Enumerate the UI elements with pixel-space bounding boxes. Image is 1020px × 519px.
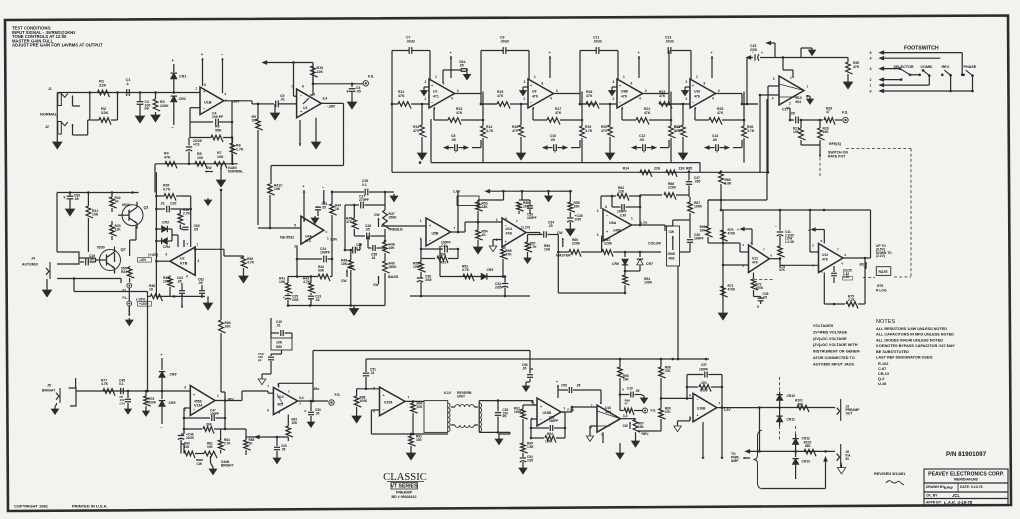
- wire pa return loop: [762, 458, 827, 489]
- wire U9 output: [554, 94, 597, 106]
- ground J5: [51, 403, 58, 414]
- ground C54: [519, 466, 527, 474]
- resistor R15: [480, 90, 528, 109]
- resistor R1: [98, 79, 110, 98]
- ground C56: [522, 382, 530, 391]
- capacitor C37: [686, 170, 701, 190]
- op-amp U1 bandpass: [425, 75, 460, 111]
- resistor R51 feedback: [421, 249, 458, 265]
- wire U15B out: [561, 406, 597, 412]
- ground mid rail: [545, 191, 553, 202]
- resistor R59 bias: [568, 190, 580, 217]
- resistor R35: [156, 184, 190, 201]
- diode CR12: [792, 434, 811, 457]
- resistor R96b: [620, 399, 642, 416]
- potentiometer R76 rate: [860, 262, 891, 275]
- capacitor C32: [495, 275, 508, 296]
- capacitor C59: [258, 350, 282, 374]
- op-amp U9 bandpass: [524, 75, 559, 111]
- potentiometer R48: [383, 241, 396, 261]
- resistor R85 bus: [666, 167, 692, 177]
- wire U2 out rail: [194, 246, 224, 251]
- wire out left drop: [759, 408, 761, 452]
- resistor R24: [674, 103, 688, 150]
- ground C59: [258, 374, 271, 385]
- capacitor C6: [347, 85, 361, 99]
- label 28v: [314, 387, 320, 391]
- resistor R77: [101, 379, 115, 396]
- capacitor C36: [687, 222, 704, 246]
- op-amp U1 second half: [291, 85, 336, 118]
- wire fs normal: [312, 66, 363, 85]
- ground C6: [347, 99, 356, 109]
- resistor R55: [501, 247, 513, 262]
- resistor R19: [580, 92, 593, 163]
- resistor R34: [115, 266, 135, 282]
- wire U5B out: [451, 191, 466, 233]
- dashed wiper link U11: [754, 279, 774, 281]
- wire connector stubs: [702, 408, 724, 459]
- label FOOTSWITCH: [904, 46, 939, 52]
- part number: [946, 451, 987, 458]
- capacitor C20: [156, 202, 190, 213]
- capacitor C44: [120, 391, 132, 407]
- jack J4 automix: [22, 257, 50, 280]
- jack J1 normal input: [48, 87, 80, 106]
- label up to down to: [876, 244, 892, 258]
- resistor R64: [623, 271, 653, 293]
- capacitor C61: [315, 202, 328, 216]
- resistor R70: [721, 228, 736, 241]
- ground J4: [42, 279, 51, 297]
- cw arrow gain normal: [205, 166, 213, 172]
- wire U1B output: [224, 101, 260, 105]
- supply arrow U9B: [638, 51, 641, 78]
- wire EQ bus upper: [431, 119, 700, 172]
- capacitor C14: [706, 134, 743, 154]
- boxed label -15V: [136, 298, 152, 307]
- lamp F.S. normal: [363, 75, 374, 87]
- resistor R26: [742, 92, 755, 163]
- resistor R50: [413, 259, 426, 277]
- capacitor C38f: [611, 195, 642, 218]
- capacitor C10: [544, 134, 581, 154]
- supply arrow U11: [737, 228, 752, 245]
- resistor R98: [659, 358, 672, 400]
- diode CR2: [171, 96, 187, 130]
- capacitor C26 label: [362, 179, 368, 187]
- capacitor C31 feedback: [420, 239, 460, 252]
- wire reverb send upper: [313, 351, 530, 384]
- diode CR9: [159, 391, 176, 430]
- resistor R5: [195, 152, 207, 168]
- resistor R11: [391, 90, 429, 109]
- capacitor C35: [567, 214, 583, 226]
- resistor R14: [481, 92, 494, 163]
- title block: [924, 469, 1008, 506]
- wire color wiper: [680, 246, 691, 252]
- wire lfo top rail: [708, 199, 871, 212]
- label R76 rlog: [876, 284, 887, 293]
- supply arrow U4A minus: [322, 186, 325, 205]
- resistor R21 feedback: [622, 107, 669, 125]
- potentiometer R7 gain normal: [214, 151, 227, 177]
- supply arrow U12: [808, 228, 824, 243]
- ground R16: [516, 150, 525, 160]
- reverb coil lower: [451, 425, 478, 427]
- capacitor C41: [775, 210, 795, 244]
- wire U16 inputs: [586, 426, 603, 443]
- resistor R99: [637, 398, 671, 431]
- dashed wire rate link: [846, 149, 911, 278]
- switch rev: [941, 70, 952, 91]
- op-amp U14 master amp: [496, 217, 526, 250]
- capacitor C47 fb: [183, 401, 227, 430]
- capacitor C2: [137, 93, 151, 114]
- wire U13A out: [215, 392, 242, 402]
- label 6.1V: [444, 391, 452, 395]
- diode CR13: [792, 459, 810, 479]
- wire bias bottom: [156, 295, 205, 298]
- ground U9 pin3: [520, 87, 528, 96]
- wire U6A out: [632, 225, 666, 231]
- potentiometer R60 master: [556, 231, 602, 258]
- diode CR1: [171, 58, 187, 93]
- dashed CR12 above: [795, 426, 797, 434]
- ground R39: [239, 273, 248, 283]
- resistor R71: [721, 284, 736, 297]
- resistor R61: [602, 238, 625, 257]
- op-amp U16 mix: [590, 401, 627, 437]
- jack J5 switch: [69, 388, 77, 406]
- capacitor C25: [283, 295, 299, 306]
- switch phase: [961, 70, 974, 91]
- wire U15A out: [405, 400, 424, 403]
- ground C63a: [65, 206, 74, 216]
- label gain normal: [228, 166, 244, 174]
- capacitor C62: [198, 278, 205, 298]
- wire input lower: [57, 91, 118, 139]
- label reverb unit: [457, 391, 472, 399]
- ground U9B pin3: [609, 87, 617, 96]
- wire mid rail: [486, 190, 560, 193]
- voltages block: [813, 324, 861, 366]
- wire pa in: [746, 450, 835, 453]
- capacitor C51: [363, 359, 376, 389]
- supply arrow U15B: [556, 380, 559, 398]
- ground U1 pin3: [421, 87, 429, 96]
- ground gain bright: [209, 463, 217, 475]
- wire color bottom drop: [677, 266, 680, 360]
- resistor R45: [346, 204, 359, 236]
- resistor R69: [700, 225, 723, 243]
- ground C35: [566, 226, 575, 236]
- resistor R88: [354, 389, 368, 413]
- wire U10 input col a: [767, 86, 779, 174]
- ground C61: [311, 216, 319, 224]
- capacitor C9: [481, 36, 529, 94]
- capacitor C34: [540, 221, 558, 238]
- resistor R20: [601, 103, 615, 150]
- ground C2: [135, 113, 144, 123]
- resistor R90: [411, 401, 423, 434]
- wire U10 output: [716, 94, 759, 106]
- capacitor C22: [177, 276, 188, 308]
- capacitor C53: [495, 399, 509, 433]
- supply arrow U1B V-: [221, 52, 224, 93]
- capacitor C8: [445, 134, 482, 154]
- wire U15B input: [533, 401, 537, 405]
- footswitch common wire: [949, 90, 974, 93]
- potentiometer R97 rev: [623, 419, 650, 436]
- resistor R58: [544, 244, 551, 252]
- resistor R72: [751, 273, 764, 291]
- op-amp U5B: [420, 218, 456, 246]
- op-amp U1B: [195, 83, 240, 115]
- wire color top: [665, 220, 690, 226]
- op-amp U2: [166, 243, 200, 279]
- wire lfo left col: [722, 210, 725, 310]
- dashed supply stub: [779, 377, 781, 391]
- resistor R73: [778, 246, 819, 272]
- ground C60: [273, 456, 281, 464]
- wire bright main: [76, 390, 190, 393]
- wire U14b bias: [246, 429, 288, 438]
- footswitch wire 4: [870, 57, 941, 61]
- resistor R39: [224, 249, 255, 273]
- op-amp U10 phase: [772, 76, 809, 106]
- resistor R85b: [225, 429, 254, 455]
- ground R97: [632, 432, 640, 447]
- footswitch wire 1: [870, 84, 930, 88]
- resistor R92: [514, 405, 537, 441]
- resistor R56 divider: [517, 191, 530, 214]
- diode CR5: [481, 268, 493, 280]
- resistor R42 feedback: [296, 259, 332, 281]
- diode CR4: [156, 229, 178, 249]
- ground R24: [678, 150, 687, 160]
- resistor R53: [476, 191, 504, 219]
- potentiometer R46 mid: [341, 249, 355, 306]
- wire U1 pin7 up: [292, 61, 296, 96]
- notes block: [876, 319, 955, 386]
- lamp F.S. reverb ret: [643, 408, 657, 413]
- resistor R87: [286, 415, 298, 442]
- capacitor C39: [754, 290, 769, 309]
- capacitor C57 fb: [686, 363, 724, 409]
- capacitor C49b: [271, 318, 292, 338]
- wire U2 top pins: [178, 240, 191, 247]
- op-amp U13A: [184, 386, 234, 416]
- wire bias column: [155, 172, 158, 296]
- wire U1B feedback: [190, 101, 233, 164]
- revised note: [874, 471, 906, 485]
- capacitor C12: [633, 134, 670, 154]
- wire U16B out: [674, 408, 760, 432]
- resistor R54: [476, 219, 488, 244]
- wire lfo feed: [708, 99, 767, 226]
- potentiometer R49 bass: [373, 261, 399, 306]
- wire automix top: [57, 191, 139, 194]
- wire J4 contacts: [57, 193, 96, 265]
- wire U10 input col b: [759, 94, 779, 173]
- resistor R4: [164, 152, 177, 169]
- supply arrow U9: [549, 51, 552, 78]
- resistor R6: [190, 125, 232, 143]
- capacitor C60: [274, 437, 287, 456]
- diode CR8: [159, 353, 177, 391]
- wire mix node: [660, 410, 662, 412]
- resistor R16: [512, 103, 526, 150]
- dashed wire rate pot vertical: [819, 147, 821, 178]
- wire channel loop: [271, 166, 344, 185]
- wire master to pin3: [602, 236, 603, 252]
- wire R27 R28 join: [801, 140, 821, 157]
- potentiometer R63 color: [648, 226, 680, 266]
- resistor R31: [86, 193, 99, 253]
- ground U10 top: [801, 48, 816, 58]
- op-amp U4A: [280, 216, 338, 248]
- connector brace: [754, 430, 763, 489]
- wire U1 output: [455, 94, 498, 106]
- ground R91: [406, 450, 415, 460]
- potentiometer R47 treble: [374, 192, 403, 241]
- wire preamp out: [758, 406, 835, 409]
- wire U12 out: [843, 210, 871, 258]
- wire input top: [57, 91, 200, 94]
- capacitor C50: [305, 401, 321, 420]
- wire to automix: [154, 164, 156, 193]
- capacitor C4: [190, 112, 232, 126]
- resistor R68: [719, 170, 732, 210]
- op-amp U11: [742, 241, 772, 272]
- resistor R28: [818, 119, 830, 140]
- ground input jacks: [53, 139, 62, 149]
- ground U1 pin5: [311, 118, 320, 149]
- supply arrow U1B pin8: [201, 52, 204, 86]
- resistor R96: [618, 358, 630, 405]
- label to pwr amp: [731, 452, 750, 463]
- reverb coil upper: [451, 405, 478, 407]
- resistor R12: [413, 103, 427, 150]
- resistor R10: [310, 66, 323, 95]
- capacitor C54: [520, 455, 534, 466]
- wire U11 inputs: [723, 243, 749, 265]
- footswitch wire 0: [870, 89, 973, 93]
- diode CR10: [776, 392, 795, 414]
- wire R73 link: [769, 243, 781, 260]
- reverb transformer primary: [424, 401, 450, 433]
- diode CR7: [624, 252, 654, 272]
- wire lower mid bus: [410, 295, 530, 298]
- capacitor C1: [126, 77, 132, 96]
- resistor R75 feedback: [824, 257, 866, 309]
- diode CR6: [612, 252, 628, 271]
- wire R98 tap: [661, 397, 693, 399]
- ground R54: [473, 244, 482, 254]
- resistor R18: [579, 90, 617, 109]
- wire U12 pin2: [809, 209, 819, 252]
- wire master down: [558, 252, 626, 294]
- label 1.0V: [453, 190, 479, 206]
- ground R78: [143, 409, 150, 416]
- capacitor C27: [345, 195, 385, 238]
- potentiometer R81 gain bright: [196, 442, 217, 467]
- wire U14 output: [521, 226, 540, 233]
- classic logo: [383, 472, 427, 499]
- wire U1 output: [321, 103, 343, 165]
- footswitch wire 3: [870, 67, 902, 71]
- wire EQ bus lower: [392, 161, 768, 172]
- capacitor C63a: [64, 193, 81, 207]
- lamp F.S. phase: [842, 111, 848, 123]
- wire U14b feedback top: [279, 383, 315, 402]
- capacitor C19: [80, 254, 96, 265]
- resistor R86 box: [271, 338, 292, 350]
- wire U14 fb: [426, 246, 504, 278]
- jack J2 normal input: [45, 120, 88, 135]
- resistor R62 feedback: [601, 186, 641, 226]
- ground C50: [307, 420, 314, 427]
- resistor R91: [409, 434, 422, 450]
- wire mid rail ext: [560, 190, 572, 192]
- wire gain bus: [155, 163, 238, 166]
- capacitor C58: [368, 236, 385, 260]
- supply arrow U1 minus: [299, 120, 302, 146]
- op-amp U14b: [267, 383, 304, 415]
- switch selector: [900, 53, 962, 77]
- wire U16 out: [620, 418, 635, 421]
- resistor R25 feedback: [695, 107, 742, 125]
- resistor R95: [521, 441, 535, 457]
- resistor R84b: [218, 429, 231, 454]
- capacitor C24 feedback: [296, 237, 334, 276]
- ground R20: [605, 150, 614, 160]
- capacitor C30: [417, 275, 432, 297]
- jack J5 bright: [42, 384, 60, 404]
- capacitor C46: [178, 429, 194, 444]
- ground lamps: [126, 306, 134, 326]
- resistor R57: [524, 235, 540, 264]
- op-amp U10 bandpass: [686, 75, 721, 111]
- wire bias right column: [189, 196, 211, 247]
- ground U16 area: [616, 443, 624, 459]
- capacitor C33: [522, 200, 537, 220]
- wire U14b input: [242, 350, 282, 401]
- ground C16b: [640, 395, 647, 404]
- ground U14 pin3: [489, 240, 497, 252]
- capacitor C28: [354, 224, 385, 239]
- op-amp U16B: [689, 393, 731, 421]
- op-amp U15A: [373, 387, 409, 416]
- resistor R83v: [219, 320, 232, 392]
- diode CR11: [776, 413, 795, 426]
- resistor R52 mix: [462, 265, 474, 282]
- ground R12: [417, 150, 426, 160]
- ground C5: [270, 104, 279, 120]
- ground J6: [837, 462, 845, 474]
- op-amp U6A: [597, 205, 648, 241]
- wire U10 pin1: [782, 56, 793, 78]
- capacitor C42: [831, 266, 852, 283]
- footswitch wire 2: [870, 78, 903, 82]
- capacitor C23: [308, 295, 321, 306]
- label gain bright: [221, 460, 233, 467]
- resistor R40 input: [268, 184, 283, 229]
- test conditions note: [12, 26, 103, 48]
- resistor R30: [846, 58, 860, 80]
- resistor R23: [659, 90, 690, 109]
